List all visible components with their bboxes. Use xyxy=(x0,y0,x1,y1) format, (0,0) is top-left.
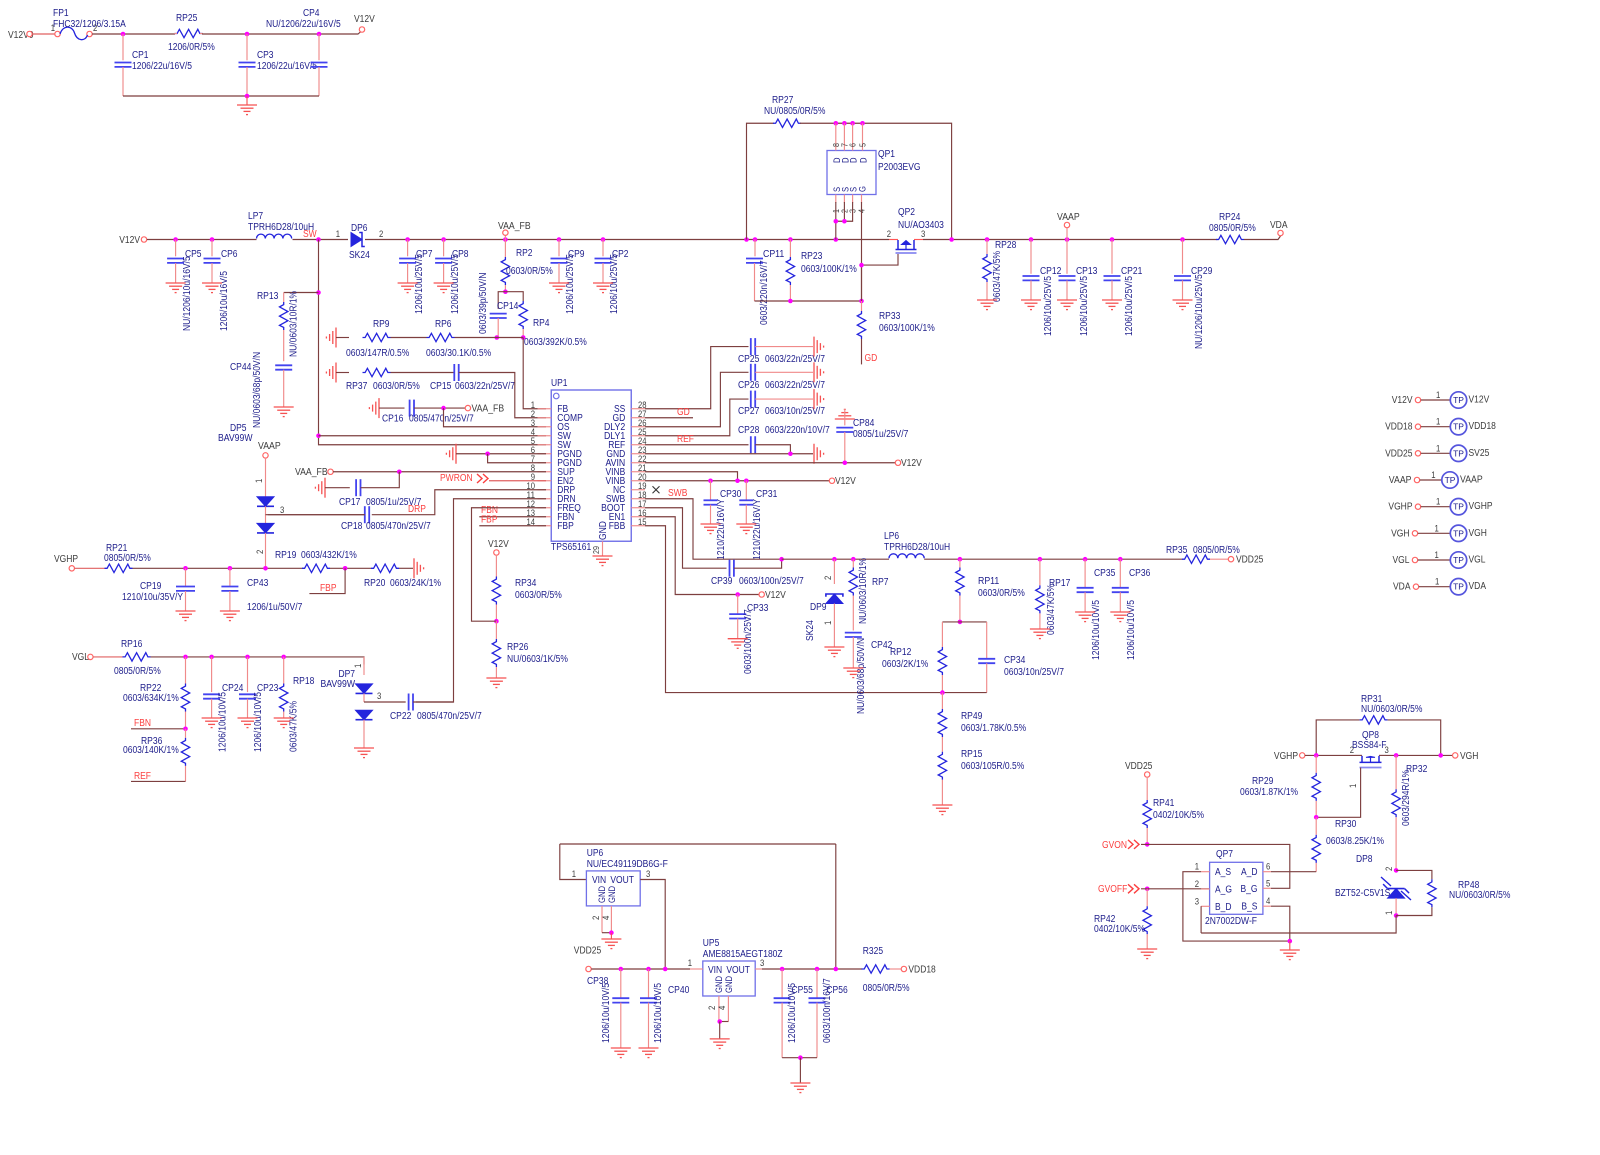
resistor RP23 xyxy=(789,240,791,258)
svg-text:V12V: V12V xyxy=(119,235,140,246)
svg-text:TP: TP xyxy=(1453,528,1464,538)
ground xyxy=(814,444,824,464)
capacitor CP1 xyxy=(122,34,124,60)
svg-text:0805/470n/25V/7: 0805/470n/25V/7 xyxy=(366,521,431,532)
svg-text:1206/10u/16V/5: 1206/10u/16V/5 xyxy=(219,271,230,331)
UP1 pin 26 DLY2 xyxy=(631,426,645,428)
svg-text:D: D xyxy=(849,157,859,163)
svg-text:1: 1 xyxy=(1436,497,1440,507)
svg-text:0603/100n/25V/7: 0603/100n/25V/7 xyxy=(739,576,804,587)
net port V12V xyxy=(359,27,364,32)
junction xyxy=(717,1019,722,1024)
svg-text:3: 3 xyxy=(760,958,764,968)
capacitor CP26 xyxy=(751,364,755,381)
UP1 pin 1 FB xyxy=(538,408,552,410)
svg-text:CP12: CP12 xyxy=(1040,266,1062,277)
junction xyxy=(779,557,784,562)
junction xyxy=(609,930,614,935)
svg-text:A_S: A_S xyxy=(1215,867,1231,878)
junction xyxy=(316,433,321,438)
junction xyxy=(441,237,446,242)
wire xyxy=(734,559,782,568)
resistor RP32 xyxy=(1395,755,1397,789)
QP1 top pin 6 xyxy=(852,123,854,150)
svg-text:CP19: CP19 xyxy=(140,581,162,592)
svg-text:NU/1206/10u/16V/5: NU/1206/10u/16V/5 xyxy=(182,256,193,331)
wire VDD25 row xyxy=(591,968,690,970)
wire FREQ net xyxy=(472,508,547,621)
net port V12V xyxy=(759,592,764,597)
capacitor CP6 xyxy=(211,240,213,257)
ground xyxy=(398,283,418,293)
ground xyxy=(843,668,863,678)
UP1 pin 7 PGND xyxy=(538,462,552,464)
ground xyxy=(736,524,756,534)
junction xyxy=(485,451,490,456)
svg-text:VDA: VDA xyxy=(1469,581,1487,592)
svg-text:0603/0R/5%: 0603/0R/5% xyxy=(373,381,420,392)
svg-text:PWRON: PWRON xyxy=(440,473,473,484)
svg-text:NU/0805/0R/5%: NU/0805/0R/5% xyxy=(764,106,825,117)
svg-text:LP6: LP6 xyxy=(884,531,899,542)
svg-text:A_D: A_D xyxy=(1241,867,1258,878)
wire xyxy=(923,239,1218,241)
svg-text:NU/1206/22u/16V/5: NU/1206/22u/16V/5 xyxy=(266,19,341,30)
svg-text:1206/10u/10V/5: 1206/10u/10V/5 xyxy=(218,692,229,752)
ground xyxy=(369,398,379,418)
wire QP8 gate xyxy=(1316,768,1360,818)
svg-text:VGHP: VGHP xyxy=(1274,751,1298,762)
svg-text:GND: GND xyxy=(724,976,734,993)
svg-text:NU/0603/10R/1%: NU/0603/10R/1% xyxy=(289,291,300,357)
svg-text:0402/10K/5%: 0402/10K/5% xyxy=(1153,810,1204,821)
svg-text:LP7: LP7 xyxy=(248,211,263,222)
svg-text:1210/22u/16V/Y: 1210/22u/16V/Y xyxy=(716,499,727,560)
svg-text:GVOFF: GVOFF xyxy=(1098,884,1127,895)
wire AVIN net xyxy=(645,462,895,464)
svg-text:1: 1 xyxy=(353,664,363,668)
svg-text:1206/1u/50V/7: 1206/1u/50V/7 xyxy=(247,602,303,613)
svg-text:RP18: RP18 xyxy=(293,676,315,687)
wire xyxy=(498,292,505,309)
wire SW pin4 xyxy=(319,435,547,437)
svg-text:RP6: RP6 xyxy=(435,319,452,330)
ground xyxy=(486,678,506,688)
wire EN2 xyxy=(489,480,546,482)
wire xyxy=(391,372,455,374)
wire GD xyxy=(645,417,693,419)
wire xyxy=(336,372,349,374)
svg-text:0603/100K/1%: 0603/100K/1% xyxy=(879,323,935,334)
svg-text:G: G xyxy=(858,186,868,192)
svg-text:CP15: CP15 xyxy=(430,381,452,392)
svg-text:TP: TP xyxy=(1453,502,1464,512)
ground xyxy=(593,556,613,566)
wire xyxy=(399,567,413,569)
junction xyxy=(1314,753,1319,758)
junction xyxy=(958,557,963,562)
svg-text:V12V: V12V xyxy=(1392,395,1413,406)
junction xyxy=(1438,753,1443,758)
diode DP9 xyxy=(833,559,835,584)
UP1 pin 25 DLY1 xyxy=(631,435,645,437)
svg-text:QP1: QP1 xyxy=(878,149,895,160)
ground xyxy=(814,337,824,357)
wire VINB pin21 xyxy=(645,472,738,481)
svg-text:GVON: GVON xyxy=(1102,840,1127,851)
wire RP12/CP34 loop top xyxy=(942,621,986,623)
svg-text:VOUT: VOUT xyxy=(610,875,634,886)
junction xyxy=(183,655,188,660)
svg-text:RP33: RP33 xyxy=(879,311,901,322)
svg-text:CP18: CP18 xyxy=(341,521,363,532)
UP1 pin 18 SWB xyxy=(631,498,645,500)
junction xyxy=(619,967,624,972)
svg-text:2: 2 xyxy=(591,916,601,920)
svg-text:4: 4 xyxy=(717,1006,727,1010)
ground xyxy=(814,389,824,409)
svg-text:VGH: VGH xyxy=(1391,528,1409,539)
svg-text:RP4: RP4 xyxy=(533,318,550,329)
svg-text:BZT52-C5V1S: BZT52-C5V1S xyxy=(1335,888,1391,899)
svg-text:VAAP: VAAP xyxy=(1057,212,1080,223)
svg-text:1206/0R/5%: 1206/0R/5% xyxy=(168,42,215,53)
junction xyxy=(788,237,793,242)
capacitor CP2 xyxy=(602,240,604,257)
junction xyxy=(860,121,865,126)
junction xyxy=(495,335,500,340)
junction xyxy=(834,121,839,126)
svg-text:QP7: QP7 xyxy=(1216,849,1233,860)
svg-text:0603/1.87K/1%: 0603/1.87K/1% xyxy=(1240,787,1298,798)
UP1 pin 6 PGND xyxy=(538,453,552,455)
wire QP1 gate pin4 xyxy=(861,202,863,301)
svg-text:SW: SW xyxy=(303,229,317,240)
svg-text:DP8: DP8 xyxy=(1356,854,1373,865)
fuse FP1 xyxy=(55,31,60,36)
resistor RP42 xyxy=(1146,889,1148,906)
resistor RP12 xyxy=(941,622,943,647)
net label FBP xyxy=(309,568,345,593)
svg-text:0603/147R/0.5%: 0603/147R/0.5% xyxy=(346,348,409,359)
ground xyxy=(1102,300,1122,310)
svg-text:1206/10u/25V/5: 1206/10u/25V/5 xyxy=(1079,276,1090,336)
svg-text:CP27: CP27 xyxy=(738,406,760,417)
capacitor CP36 xyxy=(1119,559,1121,588)
capacitor CP3 xyxy=(246,34,248,60)
svg-text:NU/0603/68p/50V/N: NU/0603/68p/50V/N xyxy=(856,638,867,714)
diode DP8 zener xyxy=(1388,889,1405,899)
svg-text:TP: TP xyxy=(1453,555,1464,565)
junction xyxy=(859,299,864,304)
junction xyxy=(263,566,268,571)
capacitor CP33 xyxy=(737,595,739,615)
capacitor CP22 xyxy=(409,694,413,711)
svg-text:1206/10u/10V/5: 1206/10u/10V/5 xyxy=(601,983,612,1043)
svg-text:RP19: RP19 xyxy=(275,550,297,561)
svg-text:VGL: VGL xyxy=(72,652,89,663)
svg-text:1: 1 xyxy=(1384,911,1394,915)
UP5 GND pins xyxy=(718,996,720,1022)
wire SW net xyxy=(319,240,547,445)
svg-text:A_G: A_G xyxy=(1215,885,1232,896)
svg-text:CP6: CP6 xyxy=(221,249,238,260)
svg-text:UP1: UP1 xyxy=(551,378,568,389)
UP1 pin 21 VINB xyxy=(631,471,645,473)
diode DP5 xyxy=(265,458,267,497)
wire DP8 to B_D row xyxy=(1201,916,1396,934)
ground xyxy=(1110,612,1130,622)
svg-text:CP26: CP26 xyxy=(738,380,760,391)
svg-text:VDD25: VDD25 xyxy=(1236,555,1264,566)
junction xyxy=(708,478,713,483)
junction xyxy=(173,237,178,242)
wire SS net xyxy=(645,347,749,409)
svg-text:0603/100K/1%: 0603/100K/1% xyxy=(801,264,857,275)
UP1 pin 23 GND xyxy=(631,453,645,455)
svg-text:1210/22u/16V/Y: 1210/22u/16V/Y xyxy=(752,499,763,560)
svg-text:5: 5 xyxy=(1266,878,1270,888)
UP1 pin 16 EN1 xyxy=(631,516,645,518)
ground xyxy=(610,933,612,939)
UP1 pin 28 SS xyxy=(631,408,645,410)
resistor RP9 xyxy=(363,333,391,341)
wire PGND xyxy=(456,453,546,455)
svg-text:1206/10u/10V/5: 1206/10u/10V/5 xyxy=(1126,600,1137,660)
wire xyxy=(293,239,349,241)
resistor RP18 xyxy=(283,657,285,684)
svg-text:V12V: V12V xyxy=(765,590,786,601)
ground xyxy=(176,611,196,621)
svg-text:1: 1 xyxy=(1434,523,1438,533)
svg-text:1: 1 xyxy=(1436,390,1440,400)
UP1 pin 24 REF xyxy=(631,444,645,446)
UP1 pin 13 FBN xyxy=(538,516,552,518)
capacitor CP23 xyxy=(247,657,249,692)
junction xyxy=(405,237,410,242)
ground xyxy=(1075,612,1095,622)
junction xyxy=(281,655,286,660)
svg-text:V12V: V12V xyxy=(901,458,922,469)
svg-text:TPRH6D28/10uH: TPRH6D28/10uH xyxy=(884,542,950,553)
net port V12V xyxy=(895,460,900,465)
svg-text:GND: GND xyxy=(607,886,617,903)
transistor QP8 xyxy=(1355,754,1362,756)
svg-text:SK24: SK24 xyxy=(349,250,370,261)
svg-text:0603/22n/25V/7: 0603/22n/25V/7 xyxy=(765,354,825,365)
junction xyxy=(494,619,499,624)
wire QP1 source pins xyxy=(835,202,837,240)
wire B_D net xyxy=(1200,906,1202,933)
ground xyxy=(799,1058,801,1083)
UP1 pin 20 VINB xyxy=(631,480,645,482)
capacitor CP43 xyxy=(229,568,231,586)
svg-text:CP40: CP40 xyxy=(668,985,690,996)
ground xyxy=(719,1022,721,1039)
junction xyxy=(245,94,250,99)
svg-text:VGH: VGH xyxy=(1460,751,1478,762)
svg-text:VGL: VGL xyxy=(1393,555,1410,566)
resistor RP2 xyxy=(504,240,506,258)
svg-text:V12V: V12V xyxy=(354,14,375,25)
junction xyxy=(1065,237,1070,242)
capacitor CP34 xyxy=(986,622,988,659)
wire xyxy=(455,337,524,339)
wire xyxy=(1244,236,1281,240)
svg-text:0603/47K/5%: 0603/47K/5% xyxy=(1046,584,1057,635)
junction xyxy=(121,32,126,37)
svg-text:1: 1 xyxy=(336,229,340,239)
svg-text:FP1: FP1 xyxy=(53,8,69,19)
capacitor CP12 xyxy=(1030,240,1032,274)
ground xyxy=(446,444,456,464)
wire xyxy=(1386,754,1453,756)
regulator UP6 xyxy=(586,871,640,906)
wire DLY1 net xyxy=(645,399,749,436)
resistor RP7 xyxy=(852,559,854,567)
svg-text:FBP: FBP xyxy=(557,521,574,532)
ground xyxy=(274,407,294,417)
net port VDD25 xyxy=(1228,557,1233,562)
wire xyxy=(800,123,952,239)
svg-text:D: D xyxy=(859,157,869,163)
svg-text:UP5: UP5 xyxy=(703,938,720,949)
junction xyxy=(753,237,758,242)
junction xyxy=(815,967,820,972)
svg-text:TP: TP xyxy=(1453,422,1464,432)
resistor RP16 xyxy=(123,653,151,661)
ground xyxy=(824,647,844,657)
svg-text:1: 1 xyxy=(1434,550,1438,560)
svg-text:1: 1 xyxy=(254,479,264,483)
wire COMP net xyxy=(459,373,546,418)
junction xyxy=(343,566,348,571)
junction xyxy=(940,690,945,695)
svg-text:BSS84-F: BSS84-F xyxy=(1352,740,1387,751)
wire xyxy=(924,558,1182,560)
QP7 pin 1 A_S xyxy=(1201,871,1210,873)
svg-text:RP26: RP26 xyxy=(507,642,529,653)
junction xyxy=(744,478,749,483)
junction xyxy=(1038,557,1043,562)
svg-text:RP23: RP23 xyxy=(801,251,823,262)
svg-text:1: 1 xyxy=(1436,443,1440,453)
ground xyxy=(166,283,186,293)
junction xyxy=(521,335,526,340)
wire xyxy=(92,33,175,35)
svg-text:1: 1 xyxy=(1431,470,1435,480)
svg-text:1: 1 xyxy=(688,958,692,968)
svg-text:0805/0R/5%: 0805/0R/5% xyxy=(1209,223,1256,234)
diode DP6 xyxy=(351,233,362,247)
resistor RP35 xyxy=(1182,555,1210,563)
junction xyxy=(557,237,562,242)
resistor RP6 xyxy=(427,333,455,341)
wire RP31 loop xyxy=(1316,720,1359,756)
resistor RP27 xyxy=(773,119,801,127)
wire BOOT net xyxy=(645,508,727,568)
junction xyxy=(851,557,856,562)
UP1 pin 15 FBB xyxy=(631,525,645,527)
capacitor CP16 xyxy=(410,400,414,417)
wire xyxy=(414,407,465,409)
junction xyxy=(228,566,233,571)
net port VAAP xyxy=(1066,228,1068,240)
svg-text:VAAP: VAAP xyxy=(1460,475,1483,486)
svg-text:CP84: CP84 xyxy=(853,418,875,429)
junction xyxy=(735,478,740,483)
svg-text:CP35: CP35 xyxy=(1094,568,1116,579)
junction xyxy=(834,237,839,242)
ground xyxy=(434,283,454,293)
wire SUP xyxy=(333,471,546,473)
junction xyxy=(1180,237,1185,242)
QP1 top pin 8 xyxy=(835,123,837,150)
svg-text:0603/1.78K/0.5%: 0603/1.78K/0.5% xyxy=(961,723,1026,734)
junction xyxy=(842,219,847,224)
wire DRN net xyxy=(416,499,546,702)
UP1 pin 4 SW xyxy=(538,435,552,437)
svg-text:TP: TP xyxy=(1453,395,1464,405)
svg-text:V12V: V12V xyxy=(1469,395,1490,406)
ground xyxy=(202,283,222,293)
junction xyxy=(183,566,188,571)
ground xyxy=(835,409,855,419)
wire xyxy=(755,398,813,400)
ground xyxy=(238,718,258,728)
ground xyxy=(1021,300,1041,310)
capacitor CP31 xyxy=(745,481,747,501)
ground xyxy=(1030,629,1050,639)
svg-text:RP7: RP7 xyxy=(872,577,889,588)
svg-text:VGL: VGL xyxy=(1469,555,1486,566)
svg-text:FBP: FBP xyxy=(481,515,498,526)
svg-text:CP3: CP3 xyxy=(257,50,274,61)
wire xyxy=(202,31,362,34)
ground xyxy=(246,96,248,105)
capacitor CP19 xyxy=(185,568,187,586)
svg-text:2: 2 xyxy=(823,576,833,580)
capacitor CP15 xyxy=(454,364,458,381)
svg-text:1: 1 xyxy=(1436,417,1440,427)
transistor QP7 2N7002DW-F xyxy=(1210,862,1263,914)
wire xyxy=(782,558,889,560)
svg-text:1206/22u/16V/5: 1206/22u/16V/5 xyxy=(257,61,317,72)
capacitor CP13 xyxy=(1066,240,1068,274)
svg-text:VDA: VDA xyxy=(1393,582,1411,593)
resistor RP13 xyxy=(284,292,319,294)
svg-text:VAA_FB: VAA_FB xyxy=(295,467,328,478)
ground xyxy=(639,1048,659,1058)
ground xyxy=(1137,949,1157,959)
svg-text:0805/0R/5%: 0805/0R/5% xyxy=(1193,545,1240,556)
svg-text:2: 2 xyxy=(887,229,891,239)
UP1 pin 14 FBP xyxy=(538,525,552,527)
junction xyxy=(958,620,963,625)
junction xyxy=(735,592,740,597)
capacitor CP11 xyxy=(754,240,756,257)
resistor RP4 xyxy=(519,301,527,329)
junction xyxy=(183,727,188,732)
svg-text:2: 2 xyxy=(255,550,265,554)
capacitor CP29 xyxy=(1182,240,1184,274)
wire B_S net xyxy=(1271,906,1290,941)
svg-text:1206/10u/25V/5: 1206/10u/25V/5 xyxy=(1124,276,1135,336)
UP1 pin 11 DRN xyxy=(538,498,552,500)
svg-text:RP13: RP13 xyxy=(257,291,279,302)
svg-text:RP41: RP41 xyxy=(1153,798,1175,809)
junction xyxy=(503,237,508,242)
